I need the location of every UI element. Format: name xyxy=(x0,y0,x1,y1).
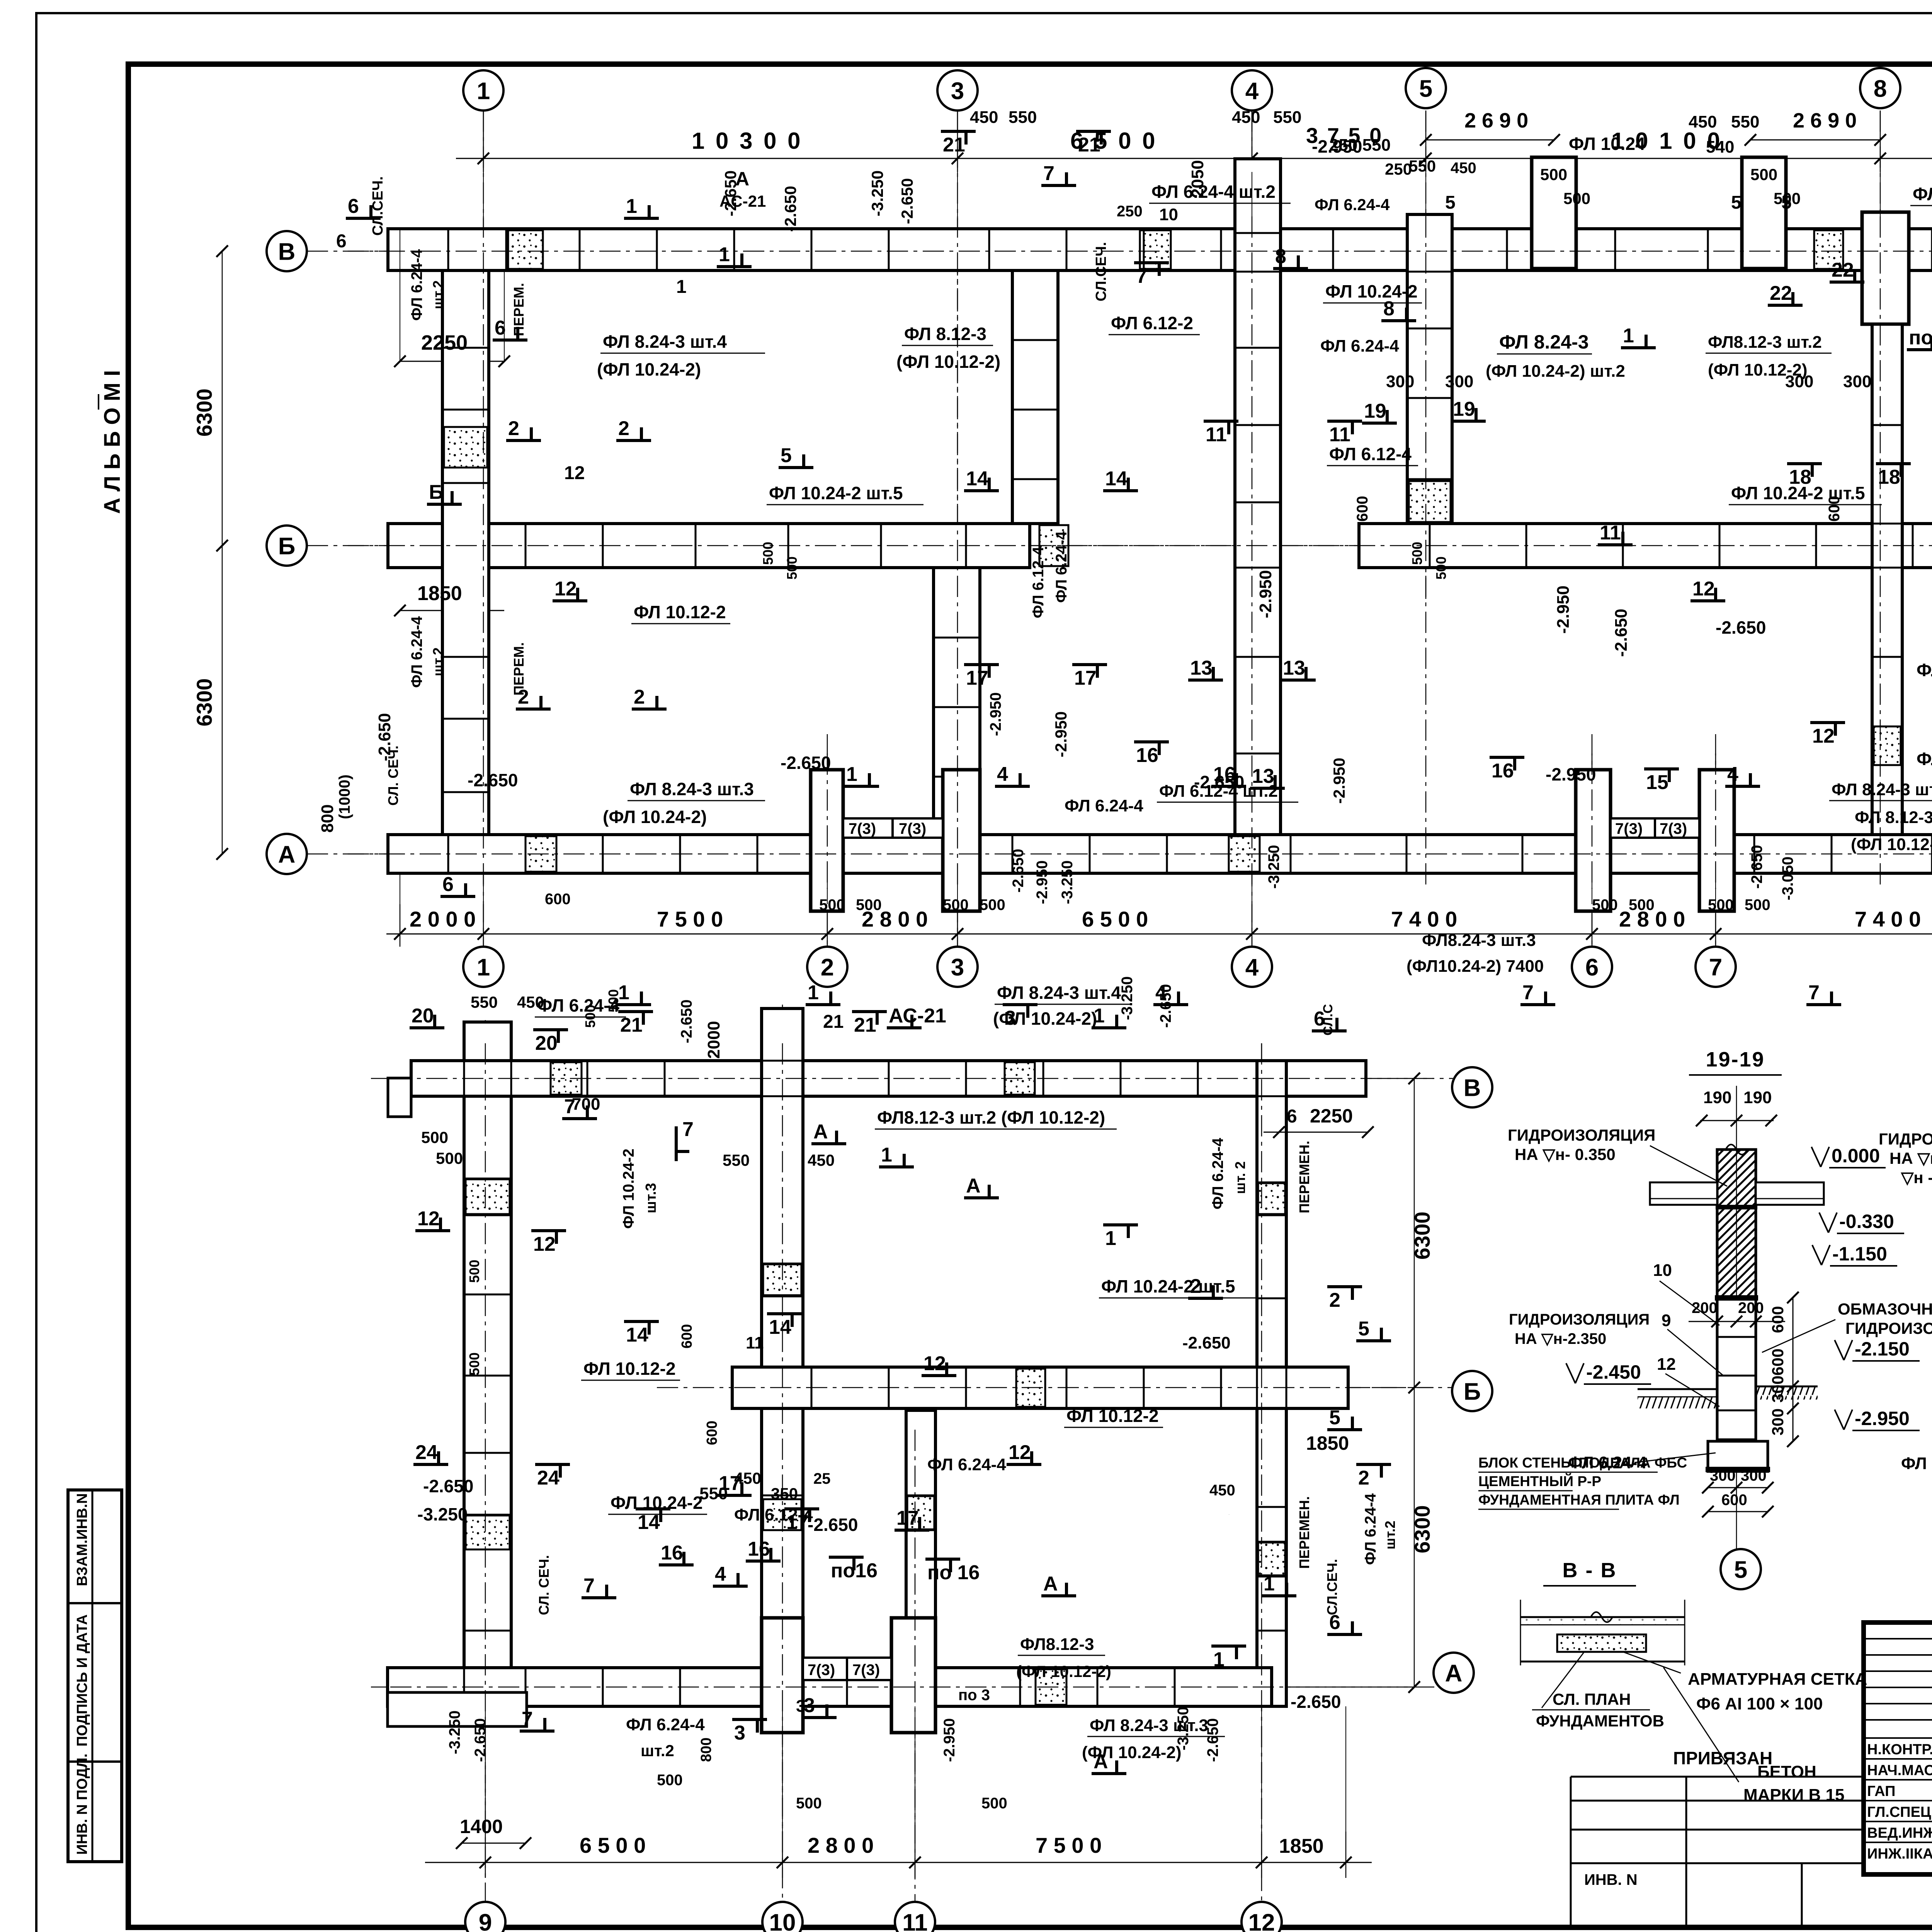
svg-text:-2.650: -2.650 xyxy=(1291,1692,1341,1712)
svg-text:ЦЕМЕНТНЫЙ Р-Р: ЦЕМЕНТНЫЙ Р-Р xyxy=(1478,1473,1601,1489)
svg-text:7(3): 7(3) xyxy=(1615,820,1643,837)
svg-text:500: 500 xyxy=(760,542,776,565)
svg-text:600: 600 xyxy=(1769,1306,1787,1333)
svg-text:1 0 3 0 0: 1 0 3 0 0 xyxy=(692,128,803,154)
svg-text:7 5 0 0: 7 5 0 0 xyxy=(1036,1833,1102,1857)
svg-text:ФЛ 6.12-4: ФЛ 6.12-4 xyxy=(1917,749,1932,769)
svg-text:7: 7 xyxy=(1709,954,1722,981)
wall axis 12 vertical bottom plan xyxy=(1257,1061,1286,1706)
dim 6300 upper xyxy=(400,251,400,546)
svg-text:А: А xyxy=(1094,1750,1108,1773)
svg-text:СЛ. ПЛАН: СЛ. ПЛАН xyxy=(1553,1690,1631,1708)
svg-text:-2.950: -2.950 xyxy=(987,692,1004,736)
svg-text:ФЛ 8.24-3 шт.4: ФЛ 8.24-3 шт.4 xyxy=(603,332,727,352)
svg-text:550: 550 xyxy=(723,1151,750,1169)
svg-text:21: 21 xyxy=(823,1012,844,1032)
svg-text:(1000): (1000) xyxy=(336,774,353,819)
svg-text:500: 500 xyxy=(466,1352,482,1376)
svg-text:-2.950: -2.950 xyxy=(1330,758,1348,804)
svg-text:22: 22 xyxy=(1832,259,1854,281)
svg-text:1: 1 xyxy=(477,78,490,104)
svg-text:500: 500 xyxy=(784,556,800,580)
pier concrete axis10 b xyxy=(763,1499,801,1530)
svg-text:ФЛ 6.24-4: ФЛ 6.24-4 xyxy=(927,1455,1006,1474)
wall axis 5 vertical xyxy=(1407,214,1452,524)
pier А-row axis 6 xyxy=(1576,770,1611,911)
svg-text:-3.250: -3.250 xyxy=(1119,976,1136,1020)
svg-text:15: 15 xyxy=(1646,771,1668,794)
pier concrete В wall 2 xyxy=(1140,230,1171,269)
svg-text:ФЛ8.12-3 шт.2: ФЛ8.12-3 шт.2 xyxy=(1708,333,1822,352)
svg-text:-3.250: -3.250 xyxy=(1265,845,1282,889)
svg-text:10: 10 xyxy=(769,1909,796,1932)
svg-text:300: 300 xyxy=(1769,1376,1787,1403)
svg-text:-2.650: -2.650 xyxy=(808,1515,858,1535)
svg-text:13: 13 xyxy=(1190,657,1213,679)
svg-text:ПЕРЕМЕН.: ПЕРЕМЕН. xyxy=(1296,1496,1312,1569)
svg-text:20: 20 xyxy=(412,1005,434,1027)
bottom plan axis В xyxy=(371,1078,1453,1079)
svg-text:6: 6 xyxy=(348,195,359,218)
svg-text:17: 17 xyxy=(1074,667,1097,689)
svg-text:12: 12 xyxy=(1692,578,1715,600)
svg-text:1400: 1400 xyxy=(460,1816,503,1837)
svg-text:550: 550 xyxy=(1273,108,1301,127)
svg-text:ФЛ 10.12-2: ФЛ 10.12-2 xyxy=(634,602,726,622)
pier concrete axis8 wall xyxy=(1874,726,1901,765)
svg-text:7: 7 xyxy=(522,1708,533,1730)
grid circle 7 bottom xyxy=(1696,947,1736,987)
svg-text:1: 1 xyxy=(1094,1005,1105,1027)
svg-text:21: 21 xyxy=(1078,134,1100,156)
svg-text:500: 500 xyxy=(1708,896,1734,913)
svg-text:14: 14 xyxy=(1105,468,1128,490)
svg-text:12: 12 xyxy=(564,463,585,483)
grid circle 6 bottom xyxy=(1572,947,1612,987)
svg-text:3: 3 xyxy=(951,954,964,981)
grid circle 4 top xyxy=(1232,70,1272,111)
section 19-19 vdims xyxy=(1793,1298,1794,1441)
svg-text:3: 3 xyxy=(804,1694,815,1717)
svg-text:12: 12 xyxy=(923,1352,946,1375)
dim 2690 left xyxy=(1426,139,1554,141)
wall axis А top plan xyxy=(388,835,1932,873)
svg-text:(ФЛ 10.24-2): (ФЛ 10.24-2) xyxy=(603,807,707,827)
svg-text:ФЛ 10.24: ФЛ 10.24 xyxy=(1569,134,1645,154)
svg-text:-2.650: -2.650 xyxy=(375,713,394,761)
svg-text:6: 6 xyxy=(1329,1611,1340,1634)
section 19-19 dim 190 190 top xyxy=(1700,1120,1774,1121)
detail B-B leaders xyxy=(1542,1652,1584,1708)
svg-text:4: 4 xyxy=(1245,954,1259,981)
svg-text:2 0 0 0: 2 0 0 0 xyxy=(410,907,476,931)
svg-text:14: 14 xyxy=(769,1316,791,1338)
svg-text:А: А xyxy=(278,841,296,868)
wall axis 11 vertical bottom plan xyxy=(906,1410,935,1706)
svg-text:-2.650: -2.650 xyxy=(781,186,799,232)
svg-text:9: 9 xyxy=(479,1909,492,1932)
svg-text:500: 500 xyxy=(657,1772,683,1789)
pier А-row axis 10 bp xyxy=(762,1618,803,1733)
circle В bottom plan xyxy=(1452,1067,1492,1107)
pier concrete Б wall xyxy=(1039,525,1068,566)
svg-text:600: 600 xyxy=(1769,1349,1787,1376)
svg-text:Ф6 АI 100 × 100: Ф6 АI 100 × 100 xyxy=(1696,1694,1823,1713)
dim 2250 left xyxy=(400,361,504,362)
svg-text:550: 550 xyxy=(471,993,498,1011)
dim 2690 right xyxy=(1750,139,1880,141)
section 19-19 dim 300 300 600 xyxy=(1708,1487,1768,1488)
svg-text:21: 21 xyxy=(943,134,965,156)
svg-text:шт.2: шт.2 xyxy=(1382,1521,1398,1550)
svg-text:ГИДРОИЗОЛЯЦИЯ: ГИДРОИЗОЛЯЦИЯ xyxy=(1879,1130,1932,1148)
svg-text:ИНЖ.IIКАТ.: ИНЖ.IIКАТ. xyxy=(1867,1846,1932,1862)
svg-text:250: 250 xyxy=(1385,160,1412,178)
svg-text:-1.150: -1.150 xyxy=(1832,1243,1887,1265)
grid circle В left xyxy=(267,231,307,271)
svg-text:21: 21 xyxy=(854,1014,876,1036)
svg-text:2 6 9 0: 2 6 9 0 xyxy=(1464,109,1528,132)
grid circle А left xyxy=(267,834,307,874)
svg-text:500: 500 xyxy=(1592,896,1618,913)
svg-text:БЛОК СТЕНЫ ПОДВАЛА ФБС: БЛОК СТЕНЫ ПОДВАЛА ФБС xyxy=(1478,1455,1687,1471)
svg-text:200: 200 xyxy=(1738,1299,1764,1316)
svg-text:7(3): 7(3) xyxy=(849,820,876,837)
svg-text:ФЛ 6.12-4: ФЛ 6.12-4 xyxy=(1329,444,1412,464)
svg-text:ФЛ 10.24-2 шт.5: ФЛ 10.24-2 шт.5 xyxy=(1101,1276,1235,1296)
left stub В wall xyxy=(388,1078,411,1117)
svg-text:2 8 0 0: 2 8 0 0 xyxy=(808,1833,874,1857)
svg-text:8: 8 xyxy=(1383,298,1395,320)
top plan axis line 7 xyxy=(1715,734,1716,947)
lintel 7(3) box d xyxy=(1655,818,1699,838)
svg-text:4: 4 xyxy=(1245,78,1259,104)
svg-text:10: 10 xyxy=(1653,1261,1672,1280)
svg-text:800: 800 xyxy=(698,1738,714,1762)
bottom plan axis А xyxy=(371,1687,1435,1688)
pier concrete В wall 3 xyxy=(1814,230,1843,269)
svg-text:ФЛ 6.24-4: ФЛ 6.24-4 xyxy=(537,995,619,1015)
svg-text:-2.650: -2.650 xyxy=(1748,845,1765,889)
extension lines bottom plan bottom dims xyxy=(485,1706,486,1832)
pier concrete axis5 wall xyxy=(1409,481,1451,522)
svg-text:ФЛ 6.24-4: ФЛ 6.24-4 xyxy=(1913,184,1932,204)
svg-text:17: 17 xyxy=(896,1507,919,1529)
svg-text:ФЛ 10.24-2: ФЛ 10.24-2 xyxy=(1325,281,1418,301)
grid circle 8 top xyxy=(1860,68,1900,108)
svg-text:ГЛ.СПЕЦ.: ГЛ.СПЕЦ. xyxy=(1867,1804,1932,1820)
svg-text:5: 5 xyxy=(1419,75,1432,102)
svg-text:7(3): 7(3) xyxy=(1660,820,1687,837)
svg-text:2: 2 xyxy=(1358,1467,1369,1489)
top plan axis line 3 xyxy=(957,111,958,947)
bottom dim line xyxy=(386,934,1932,935)
svg-text:19: 19 xyxy=(1453,398,1475,420)
svg-text:ФЛ 6.24-4: ФЛ 6.24-4 xyxy=(1053,531,1070,603)
svg-text:по12: по12 xyxy=(1909,327,1932,349)
svg-text:12: 12 xyxy=(533,1233,556,1255)
svg-text:19: 19 xyxy=(1364,400,1386,422)
svg-text:6: 6 xyxy=(1314,1008,1325,1030)
pier concrete axis10 a xyxy=(763,1264,801,1295)
svg-text:А: А xyxy=(813,1121,828,1143)
svg-text:-2.650: -2.650 xyxy=(472,1718,489,1762)
pier А-row axis 2 xyxy=(811,770,843,911)
section 19-19 blocks xyxy=(1717,1298,1756,1440)
svg-text:3: 3 xyxy=(951,78,964,104)
svg-text:-2.650: -2.650 xyxy=(781,753,831,773)
svg-text:600: 600 xyxy=(545,891,571,908)
svg-text:6300: 6300 xyxy=(192,388,216,437)
grid circle 1 bottom xyxy=(463,947,503,987)
svg-text:2: 2 xyxy=(518,686,529,708)
svg-text:2000: 2000 xyxy=(704,1021,723,1059)
section 19-19 top squiggle xyxy=(1726,1145,1747,1155)
svg-text:1: 1 xyxy=(881,1144,892,1166)
wall axis 10 vertical bottom plan xyxy=(762,1009,803,1706)
circle 9 bottom plan xyxy=(465,1902,505,1932)
pier concrete А wall bp xyxy=(1036,1669,1066,1705)
pier concrete В wall bp xyxy=(551,1062,582,1095)
svg-text:2: 2 xyxy=(618,417,629,440)
svg-text:ФЛ 6.24-4: ФЛ 6.24-4 xyxy=(1315,196,1390,214)
svg-text:(ФЛ 10.12-2): (ФЛ 10.12-2) xyxy=(1851,835,1932,854)
svg-text:14: 14 xyxy=(626,1324,648,1346)
svg-text:ПРИВЯЗАН: ПРИВЯЗАН xyxy=(1673,1748,1772,1768)
extension lines top plan top dims xyxy=(483,172,484,216)
detail B-B rebar mesh xyxy=(1557,1634,1646,1652)
svg-text:ФУНДАМЕНТОВ: ФУНДАМЕНТОВ xyxy=(1536,1712,1664,1730)
svg-text:10: 10 xyxy=(1159,205,1178,224)
pier А-row axis 3 xyxy=(943,770,980,911)
wall axis 3 upper offset xyxy=(1012,270,1058,524)
pier concrete А wall 1 xyxy=(526,836,556,872)
svg-text:13: 13 xyxy=(1283,657,1305,679)
svg-text:А: А xyxy=(1445,1660,1463,1687)
top plan axis line А xyxy=(307,854,1932,855)
svg-text:(ФЛ10.24-2) 7400: (ФЛ10.24-2) 7400 xyxy=(1406,957,1544,976)
svg-text:500: 500 xyxy=(981,1795,1007,1812)
svg-text:СЛ.СЕЧ.: СЛ.СЕЧ. xyxy=(1093,242,1109,301)
grid circle 3 bottom xyxy=(937,947,978,987)
svg-text:5: 5 xyxy=(1329,1406,1340,1429)
svg-text:300: 300 xyxy=(1741,1467,1767,1484)
svg-text:ФЛ 8.24-3 шт.3: ФЛ 8.24-3 шт.3 xyxy=(1832,780,1932,799)
svg-text:-2.450: -2.450 xyxy=(1586,1361,1641,1383)
svg-text:17: 17 xyxy=(966,667,988,689)
top plan axis line 8 xyxy=(1880,111,1881,811)
svg-text:7 5 0 0: 7 5 0 0 xyxy=(657,907,723,931)
svg-text:ФЛ 6.24-4: ФЛ 6.24-4 xyxy=(1917,660,1932,680)
svg-text:шт. 2: шт. 2 xyxy=(1232,1162,1248,1194)
bottom plan axis 12 xyxy=(1261,1043,1262,1901)
svg-text:4: 4 xyxy=(1727,763,1738,786)
svg-text:МАРКИ В 15: МАРКИ В 15 xyxy=(1743,1786,1844,1804)
axis overlays bottom plan xyxy=(485,1043,486,1832)
wall axis Б right top plan xyxy=(1359,524,1932,568)
svg-text:600: 600 xyxy=(679,1324,695,1349)
bottom plan axis 10 xyxy=(782,1005,783,1901)
svg-text:АС-21: АС-21 xyxy=(889,1005,946,1027)
svg-text:7: 7 xyxy=(1136,265,1147,287)
svg-text:600: 600 xyxy=(1354,496,1371,522)
svg-text:550: 550 xyxy=(1731,112,1759,131)
svg-text:ФЛ 10.24-2: ФЛ 10.24-2 xyxy=(1901,1454,1932,1473)
svg-text:шт.3: шт.3 xyxy=(643,1183,659,1213)
svg-text:-2.950: -2.950 xyxy=(1855,1408,1910,1429)
small table left of title block xyxy=(1571,1776,1864,1778)
svg-text:2: 2 xyxy=(1329,1289,1340,1311)
svg-text:-2.950: -2.950 xyxy=(1546,764,1596,784)
svg-text:550: 550 xyxy=(1409,157,1436,175)
svg-text:ФЛ 8.12-3: ФЛ 8.12-3 xyxy=(1855,808,1932,827)
svg-text:16: 16 xyxy=(1492,760,1514,782)
title block outer xyxy=(1864,1622,1932,1874)
svg-text:1: 1 xyxy=(1213,1648,1225,1671)
svg-text:ФЛ 8.24-3: ФЛ 8.24-3 xyxy=(1499,331,1589,353)
svg-text:2 6 9 0: 2 6 9 0 xyxy=(1793,109,1857,132)
svg-text:ВЗАМ.ИНВ.N: ВЗАМ.ИНВ.N xyxy=(74,1493,90,1586)
svg-text:шт.2: шт.2 xyxy=(430,648,446,677)
lintel 7(3) bp a xyxy=(803,1658,847,1680)
grid circle 5 top xyxy=(1406,68,1446,108)
svg-text:А: А xyxy=(1043,1573,1058,1595)
svg-text:2050: 2050 xyxy=(1188,160,1207,198)
svg-text:ФЛ 6.24-4: ФЛ 6.24-4 xyxy=(408,249,425,321)
section 19-19 left floor xyxy=(1638,1388,1717,1390)
wall А left step xyxy=(388,1692,527,1726)
svg-text:ФЛ 6.24-4: ФЛ 6.24-4 xyxy=(1065,796,1143,815)
section 19-19 band under slab xyxy=(1716,1205,1757,1209)
svg-text:СЛ. СЕЧ.: СЛ. СЕЧ. xyxy=(536,1555,552,1615)
pier А-row axis 11 bp xyxy=(891,1618,935,1733)
wall axis Б left top plan xyxy=(388,524,1030,568)
pier concrete axis12 a xyxy=(1258,1183,1285,1214)
svg-text:5: 5 xyxy=(1734,1556,1747,1583)
svg-text:14: 14 xyxy=(966,468,988,490)
svg-text:по 16: по 16 xyxy=(927,1561,980,1584)
svg-text:ФЛ8.12-3 шт.2 (ФЛ 10.12-2): ФЛ8.12-3 шт.2 (ФЛ 10.12-2) xyxy=(877,1107,1105,1128)
wall axis Б bottom plan xyxy=(732,1367,1348,1408)
svg-text:11: 11 xyxy=(1329,423,1350,446)
svg-text:1: 1 xyxy=(1264,1573,1275,1595)
wall axis А bottom plan xyxy=(388,1668,1272,1706)
svg-text:ОБМАЗОЧНАЯ: ОБМАЗОЧНАЯ xyxy=(1838,1300,1932,1318)
svg-text:24: 24 xyxy=(537,1467,560,1489)
svg-text:450: 450 xyxy=(1232,108,1260,127)
circle 10 bottom plan xyxy=(762,1902,803,1932)
svg-text:-2.650: -2.650 xyxy=(678,1000,695,1043)
svg-text:12: 12 xyxy=(1248,1909,1275,1932)
top dim line xyxy=(456,158,1932,159)
top plan axis line 4 xyxy=(1252,111,1253,947)
svg-text:14: 14 xyxy=(638,1511,660,1534)
svg-text:7: 7 xyxy=(564,1095,575,1118)
detail B-B slab xyxy=(1520,1616,1685,1618)
svg-text:17: 17 xyxy=(786,1511,809,1534)
svg-text:-3.250: -3.250 xyxy=(446,1711,463,1754)
svg-text:12: 12 xyxy=(417,1207,440,1230)
svg-text:ФЛ 6.24-4: ФЛ 6.24-4 xyxy=(408,616,425,688)
svg-text:1: 1 xyxy=(808,981,819,1004)
bottom plan axis Б xyxy=(657,1387,1453,1388)
left stamp boxes xyxy=(68,1490,122,1862)
svg-text:500: 500 xyxy=(1745,896,1770,913)
pier concrete axis11 xyxy=(907,1496,934,1529)
svg-text:ФЛ 6.24-4: ФЛ 6.24-4 xyxy=(1362,1493,1379,1565)
svg-text:450: 450 xyxy=(808,1151,835,1169)
svg-text:450: 450 xyxy=(1689,112,1717,131)
svg-text:-2.650: -2.650 xyxy=(1612,609,1631,657)
svg-text:-2.650: -2.650 xyxy=(423,1476,473,1496)
grid circle 4 bottom xyxy=(1232,947,1272,987)
svg-text:СЛ.СЕЧ.: СЛ.СЕЧ. xyxy=(1324,1559,1340,1615)
bottom plan axis 9 xyxy=(485,1020,486,1901)
svg-text:(ФЛ 10.24-2): (ФЛ 10.24-2) xyxy=(993,1009,1097,1029)
svg-text:Б: Б xyxy=(1464,1378,1481,1405)
svg-text:ФЛ 6.12-4: ФЛ 6.12-4 xyxy=(1030,546,1047,618)
svg-text:11: 11 xyxy=(902,1909,928,1932)
bottom plan dim line xyxy=(425,1862,1372,1863)
svg-text:3: 3 xyxy=(734,1722,745,1744)
svg-text:6 5 0 0: 6 5 0 0 xyxy=(580,1833,646,1857)
svg-text:300: 300 xyxy=(1843,372,1871,391)
svg-text:шт.2: шт.2 xyxy=(430,281,446,310)
free pier 1 between 5-8 xyxy=(1532,157,1576,269)
svg-text:1: 1 xyxy=(676,277,687,297)
svg-text:7: 7 xyxy=(1043,162,1054,185)
svg-text:450: 450 xyxy=(1209,1482,1235,1499)
svg-text:20: 20 xyxy=(535,1032,558,1054)
svg-text:190: 190 xyxy=(1743,1088,1772,1107)
svg-text:500: 500 xyxy=(796,1795,822,1812)
svg-text:300: 300 xyxy=(1386,372,1414,391)
svg-text:8: 8 xyxy=(1275,245,1286,268)
lintel 7(3) bp b xyxy=(847,1658,891,1680)
title block bottom edge xyxy=(1864,1872,1932,1876)
svg-text:24: 24 xyxy=(415,1441,438,1464)
svg-text:500: 500 xyxy=(943,896,969,913)
pier concrete Б wall bp xyxy=(1016,1369,1045,1407)
svg-text:ФЛ8.24-3 шт.3: ФЛ8.24-3 шт.3 xyxy=(1422,931,1536,950)
svg-text:ФЛ 6.24-4: ФЛ 6.24-4 xyxy=(1320,337,1399,355)
svg-text:18: 18 xyxy=(1878,466,1900,488)
svg-text:(ФЛ 10.24-2): (ФЛ 10.24-2) xyxy=(597,359,701,379)
svg-text:11: 11 xyxy=(1600,522,1621,544)
svg-text:(ФЛ 10.12-2): (ФЛ 10.12-2) xyxy=(1016,1662,1111,1680)
svg-text:6 5 0 0: 6 5 0 0 xyxy=(1082,907,1148,931)
svg-text:12: 12 xyxy=(1657,1355,1676,1374)
svg-text:1: 1 xyxy=(1105,1227,1116,1250)
svg-text:12: 12 xyxy=(1812,725,1835,747)
axis overlays top plan xyxy=(483,216,484,889)
bp right vertical dim line xyxy=(1414,1078,1415,1687)
bottom plan section markers xyxy=(410,1026,444,1029)
svg-text:Б: Б xyxy=(429,481,443,503)
svg-text:шт.2: шт.2 xyxy=(641,1742,674,1760)
svg-text:-2.950: -2.950 xyxy=(1052,711,1070,757)
svg-text:4: 4 xyxy=(715,1563,726,1585)
svg-text:11: 11 xyxy=(1206,423,1227,446)
svg-text:по 3: по 3 xyxy=(958,1687,990,1704)
svg-text:-3.250: -3.250 xyxy=(417,1504,468,1524)
svg-text:450: 450 xyxy=(1451,160,1476,177)
svg-text:по16: по16 xyxy=(831,1560,878,1582)
grid circle 1 top xyxy=(463,70,503,111)
svg-text:300: 300 xyxy=(1445,372,1473,391)
svg-text:500: 500 xyxy=(1750,165,1777,184)
svg-text:7: 7 xyxy=(583,1575,595,1597)
